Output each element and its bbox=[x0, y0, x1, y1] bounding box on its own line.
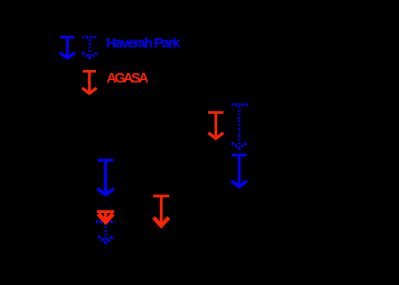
upper-limit arrow: blue solid (lower left) bbox=[97, 160, 113, 194]
svg-text:AGASA: AGASA bbox=[107, 69, 149, 85]
wire bbox=[83, 70, 96, 73]
upper-limit arrow: red solid short (overlapping, on top) bbox=[97, 212, 114, 224]
wire bbox=[96, 220, 114, 223]
svg-text:Haverah Park: Haverah Park bbox=[106, 35, 180, 51]
wire bbox=[98, 159, 114, 162]
wire bbox=[153, 195, 169, 198]
wire bbox=[232, 154, 247, 157]
upper-limit arrow: red solid (bottom middle) bbox=[153, 196, 169, 226]
upper-limit arrow: blue solid (Haverah Park marker 1) bbox=[60, 37, 76, 58]
wire bbox=[208, 111, 223, 114]
upper-limit arrow: red solid (AGASA marker) bbox=[82, 71, 96, 93]
wire bbox=[82, 36, 97, 39]
upper-limit arrow: blue dotted (right column upper) bbox=[231, 105, 248, 149]
wire bbox=[60, 36, 75, 39]
wire bbox=[231, 103, 248, 106]
upper-limit arrow: blue dotted (Haverah Park marker 2) bbox=[82, 37, 97, 57]
upper-limit arrow: red solid (mid right) bbox=[208, 113, 223, 139]
upper-limit arrow: blue dotted (below the red short one) bbox=[96, 222, 114, 243]
upper-limit arrow: blue solid (right column lower) bbox=[232, 155, 247, 187]
wire bbox=[97, 210, 114, 213]
